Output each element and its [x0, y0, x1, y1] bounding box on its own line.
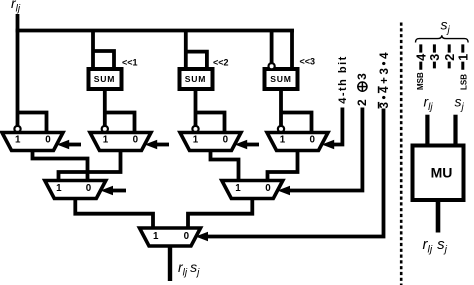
svg-text:1: 1	[103, 134, 109, 145]
svg-text:MU: MU	[431, 165, 453, 181]
svg-text:4-th bit: 4-th bit	[337, 56, 349, 103]
svg-text:2: 2	[443, 54, 457, 61]
svg-text:0: 0	[265, 183, 271, 194]
svg-text:4: 4	[414, 54, 428, 61]
svg-text:0: 0	[184, 231, 190, 242]
svg-text:<<1: <<1	[122, 58, 138, 68]
svg-text:LSB: LSB	[459, 74, 468, 90]
svg-text:1: 1	[456, 54, 470, 61]
svg-text:0: 0	[133, 134, 139, 145]
svg-text:3: 3	[428, 54, 442, 61]
svg-text:1: 1	[193, 134, 199, 145]
svg-text:SUM: SUM	[94, 74, 116, 84]
svg-text:1: 1	[15, 134, 21, 145]
svg-text:0: 0	[223, 134, 229, 145]
svg-text:1: 1	[280, 134, 286, 145]
svg-text:<<2: <<2	[213, 58, 229, 68]
svg-text:SUM: SUM	[185, 74, 207, 84]
svg-text:0: 0	[86, 183, 92, 194]
svg-text:SUM: SUM	[270, 74, 292, 84]
svg-text:0: 0	[45, 134, 51, 145]
svg-text:<<3: <<3	[300, 57, 316, 67]
svg-text:1: 1	[153, 231, 159, 242]
svg-text:0: 0	[309, 134, 315, 145]
svg-text:1: 1	[235, 183, 241, 194]
svg-text:MSB: MSB	[416, 72, 425, 90]
svg-text:1: 1	[56, 183, 62, 194]
svg-text:2: 2	[355, 99, 369, 106]
svg-text:3: 3	[355, 73, 369, 80]
